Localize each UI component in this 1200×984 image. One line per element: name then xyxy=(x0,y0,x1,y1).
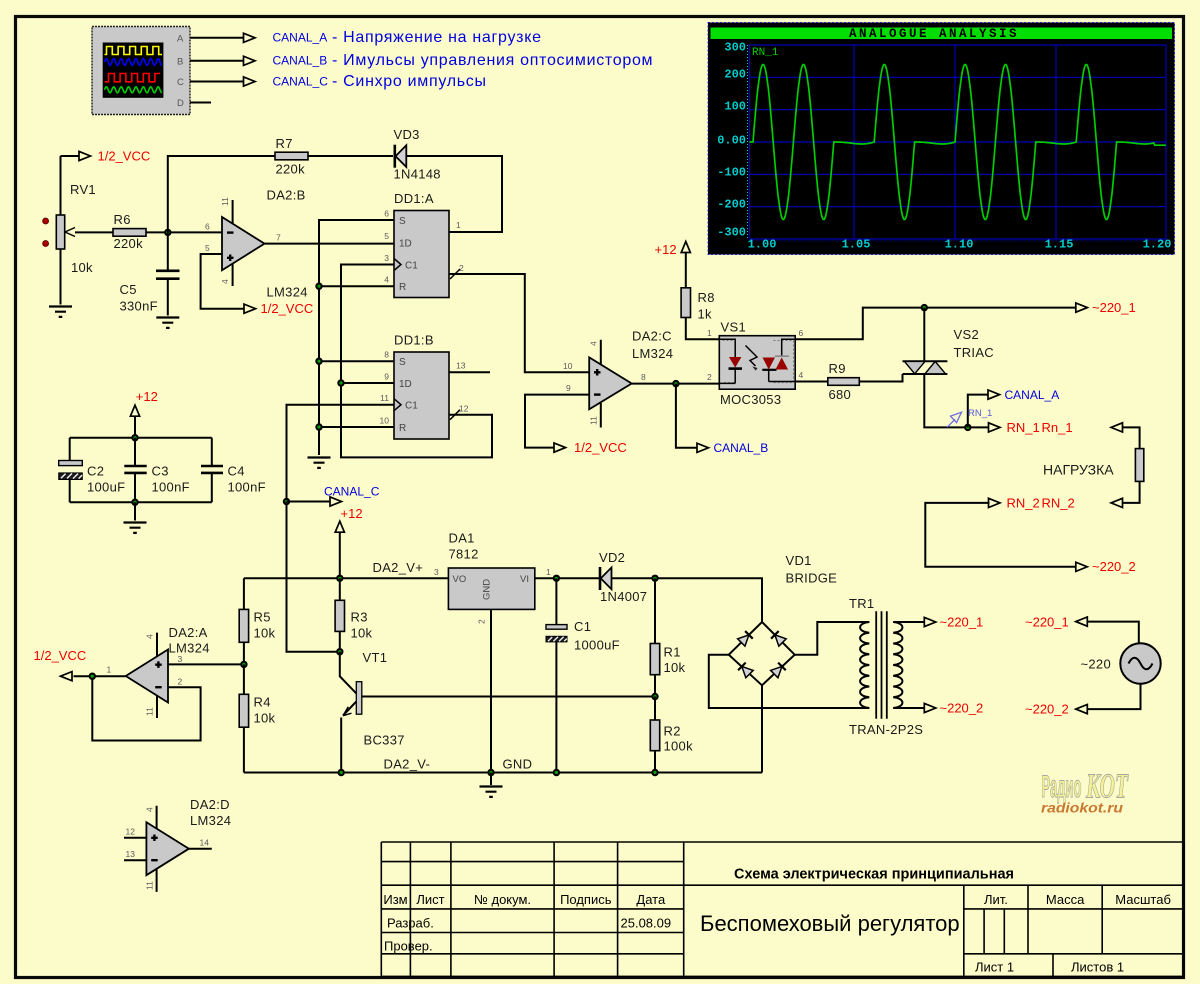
svg-text:Изм: Изм xyxy=(383,892,407,907)
svg-text:CANAL_A: CANAL_A xyxy=(273,31,328,45)
svg-text:220k: 220k xyxy=(276,162,306,177)
op-amp DA2:C xyxy=(563,329,673,410)
node R3 top junction xyxy=(336,575,343,582)
svg-text:220k: 220k xyxy=(114,236,144,251)
svg-text:RN_1: RN_1 xyxy=(968,408,992,419)
svg-text:1: 1 xyxy=(456,220,461,230)
terminal RN_1 xyxy=(989,420,1040,435)
terminal CANAL_C xyxy=(287,485,380,507)
node divider junction xyxy=(240,661,247,668)
wire DD1:A C1 feedback loop from DD1:B pin12 xyxy=(341,265,492,458)
wire RV1 top xyxy=(60,156,62,215)
svg-text:100nF: 100nF xyxy=(152,480,190,495)
wire TR1 secondary top xyxy=(893,621,924,623)
svg-text:1.20: 1.20 xyxy=(1143,238,1172,252)
terminal CANAL_B scope xyxy=(244,56,256,65)
terminal ~220_2 top xyxy=(1076,559,1136,574)
svg-text:1N4148: 1N4148 xyxy=(394,167,441,182)
svg-text:DA2_V+: DA2_V+ xyxy=(373,560,424,575)
op-amp DA2:A xyxy=(107,625,210,703)
wire DA2_V- ground rail xyxy=(244,772,762,774)
svg-text:RN_1: RN_1 xyxy=(752,47,779,59)
svg-text:C2: C2 xyxy=(87,464,104,479)
net label CANAL_A description xyxy=(273,29,542,46)
svg-text:1k: 1k xyxy=(698,307,713,322)
wire source top xyxy=(1087,622,1139,644)
wire TR1 secondary bottom xyxy=(893,707,924,709)
analysis trace RN_1 xyxy=(750,65,1166,220)
op-amp DA2:B power pins xyxy=(220,197,233,286)
svg-text:2: 2 xyxy=(178,677,183,687)
title block grid xyxy=(381,842,1184,976)
svg-text:14: 14 xyxy=(200,838,210,848)
svg-text:R5: R5 xyxy=(254,610,271,625)
svg-text:C1: C1 xyxy=(574,619,591,634)
scope trace blue xyxy=(105,59,162,66)
resistor R2 100k xyxy=(650,697,693,773)
svg-text:100nF: 100nF xyxy=(228,480,266,495)
node DD1:B S junction xyxy=(315,358,322,365)
svg-text:1N4007: 1N4007 xyxy=(600,589,647,604)
svg-text:13: 13 xyxy=(126,849,136,859)
node CANAL_B junction xyxy=(672,380,679,387)
svg-text:R: R xyxy=(399,423,406,434)
wire DA2:B pin5 loop to 1/2_VCC xyxy=(201,254,244,309)
svg-text:DD1:B: DD1:B xyxy=(394,333,434,348)
diode VD2 1N4007 xyxy=(599,550,647,604)
svg-text:11: 11 xyxy=(380,393,389,403)
svg-text:300: 300 xyxy=(724,41,746,55)
node DD1:B R junction xyxy=(315,423,322,430)
svg-text:10k: 10k xyxy=(351,626,373,641)
svg-text:R: R xyxy=(399,282,406,293)
svg-text:~220_1: ~220_1 xyxy=(940,614,984,629)
svg-text:10: 10 xyxy=(563,361,573,371)
analogue analysis window xyxy=(708,23,1175,255)
svg-text:+12: +12 xyxy=(136,389,158,404)
svg-text:1/2_VCC: 1/2_VCC xyxy=(98,149,151,164)
svg-text:10k: 10k xyxy=(254,626,276,641)
svg-text:7: 7 xyxy=(276,233,281,243)
flip-flop DD1:B 4013 xyxy=(380,0,469,439)
resistor R7 xyxy=(275,136,308,177)
wire DA2:D pin13 xyxy=(124,859,146,861)
power +12 at R8 xyxy=(655,242,691,288)
node caps top junction xyxy=(131,434,138,441)
capacitor C3 100nF xyxy=(124,438,190,503)
svg-text:R2: R2 xyxy=(664,724,681,739)
wire VD3 to DD1:A pin1 xyxy=(406,156,502,232)
potentiometer RV1 xyxy=(43,182,96,275)
svg-text:100uF: 100uF xyxy=(87,480,125,495)
node VT1 emitter junction xyxy=(338,769,345,776)
svg-text:VS1: VS1 xyxy=(721,320,746,335)
svg-text:25.08.09: 25.08.09 xyxy=(621,916,672,931)
op-amp DA2:A power pins xyxy=(145,633,157,718)
node DA1 pin2 junction xyxy=(487,769,494,776)
wire caps top rail xyxy=(70,437,212,439)
net label CANAL_C description xyxy=(273,73,487,90)
capacitor C4 100nF xyxy=(201,438,266,503)
wire scope C xyxy=(190,81,244,83)
power +12 at R3 xyxy=(335,506,362,578)
node CANAL_C junction xyxy=(283,498,290,505)
diode VD3 1N4148 xyxy=(394,127,441,182)
capacitor C5 xyxy=(120,271,180,314)
svg-text:4: 4 xyxy=(799,370,804,380)
svg-text:VD3: VD3 xyxy=(394,127,420,142)
svg-text:6: 6 xyxy=(799,328,804,338)
node DD1:B 1D junction xyxy=(337,379,344,386)
svg-text:BRIDGE: BRIDGE xyxy=(786,571,838,586)
svg-text:-300: -300 xyxy=(717,226,746,240)
svg-text:A: A xyxy=(177,34,184,45)
svg-text:R4: R4 xyxy=(254,695,271,710)
svg-text:- Синхро импульсы: - Синхро импульсы xyxy=(332,73,487,90)
node VT1 collector junction xyxy=(336,648,343,655)
svg-text:GND: GND xyxy=(503,757,533,772)
svg-text:S: S xyxy=(399,216,406,227)
scope pin labels xyxy=(177,34,184,110)
svg-text:B: B xyxy=(177,57,183,68)
svg-text:R3: R3 xyxy=(351,610,368,625)
svg-text:VD1: VD1 xyxy=(786,553,812,568)
analysis y-axis tick strip xyxy=(747,45,749,239)
svg-text:2: 2 xyxy=(707,372,712,382)
svg-text:- Имульсы управления оптосимис: - Имульсы управления оптосимистором xyxy=(332,52,653,69)
svg-text:~220_2: ~220_2 xyxy=(1092,559,1136,574)
svg-text:1: 1 xyxy=(707,328,712,338)
svg-text:4: 4 xyxy=(589,341,599,346)
svg-text:-100: -100 xyxy=(717,166,746,180)
wire DA2:A output xyxy=(74,675,126,677)
resistor R4 10k xyxy=(239,664,275,772)
svg-text:VO: VO xyxy=(453,574,467,585)
svg-text:TRAN-2P2S: TRAN-2P2S xyxy=(849,722,923,737)
wire DD1:B C1 pin to CANAL_C net xyxy=(287,405,395,502)
node R6/C5/R7 junction xyxy=(164,229,171,236)
title block column headers xyxy=(383,892,1171,907)
svg-text:~220_1: ~220_1 xyxy=(1025,614,1069,629)
svg-text:RV1: RV1 xyxy=(70,182,96,197)
transistor VT1 BC337 xyxy=(340,650,405,773)
oscilloscope icon body xyxy=(92,27,190,115)
node C1 bottom junction xyxy=(553,769,560,776)
svg-text:1/2_VCC: 1/2_VCC xyxy=(574,440,627,455)
analysis plot grid xyxy=(750,45,1167,241)
svg-text:Лист: Лист xyxy=(416,892,444,907)
svg-text:1.00: 1.00 xyxy=(748,238,777,252)
svg-text:LM324: LM324 xyxy=(267,285,308,300)
wire C5 to ground xyxy=(167,279,169,316)
wire RV1 bottom xyxy=(60,249,62,305)
wire MOC pin6 to ~220_1 rail xyxy=(795,308,1076,340)
bridge VD1 xyxy=(729,553,837,685)
svg-text:2: 2 xyxy=(459,263,464,273)
svg-text:C: C xyxy=(177,77,184,88)
terminal CANAL_B xyxy=(676,384,768,455)
ground DD1 rail xyxy=(308,458,331,468)
wire DA1 pin1 to VD2 xyxy=(535,577,601,579)
wire junction down to VS2 xyxy=(923,308,925,362)
svg-text:ANALOGUE ANALYSIS: ANALOGUE ANALYSIS xyxy=(849,27,1019,41)
svg-text:0.00: 0.00 xyxy=(717,134,746,148)
capacitor C1 1000uF xyxy=(546,578,620,772)
op-amp DA2:D xyxy=(126,797,232,875)
svg-text:Масса: Масса xyxy=(1046,892,1085,907)
wire RN_2 to ~220_2 xyxy=(925,503,1076,567)
svg-text:-200: -200 xyxy=(717,198,746,212)
wire DA2:D pin12 xyxy=(124,837,146,839)
svg-text:4: 4 xyxy=(220,279,230,284)
resistor R3 10k xyxy=(335,578,372,651)
wire source bottom xyxy=(1087,684,1140,709)
triac VS2 xyxy=(903,327,995,374)
wire load to RN_2 right xyxy=(1123,481,1140,503)
svg-text:8: 8 xyxy=(641,372,646,382)
wire R8 to MOC pin1 xyxy=(686,318,720,340)
svg-text:DA1: DA1 xyxy=(449,531,475,546)
svg-text:10k: 10k xyxy=(71,260,93,275)
node R1 top junction xyxy=(651,575,658,582)
svg-text:1D: 1D xyxy=(399,239,412,250)
wire R7 to VD3 xyxy=(308,155,393,157)
terminal RN_2 right xyxy=(1042,495,1123,510)
terminal CANAL_C scope xyxy=(244,77,256,86)
resistor R9 680 xyxy=(828,361,860,402)
wire bridge right to TR1 primary top xyxy=(795,622,870,655)
svg-text:11: 11 xyxy=(144,881,154,890)
analysis y labels xyxy=(717,41,746,240)
terminal ~220_2 source xyxy=(1025,702,1087,717)
wire DD1:A S pin and ground rail xyxy=(319,220,394,455)
svg-text:10k: 10k xyxy=(254,711,276,726)
svg-text:CANAL_A: CANAL_A xyxy=(1005,388,1060,402)
svg-text:8: 8 xyxy=(384,350,389,360)
svg-text:680: 680 xyxy=(829,387,852,402)
svg-text:VD2: VD2 xyxy=(599,550,625,565)
svg-text:- Напряжение на нагрузке: - Напряжение на нагрузке xyxy=(332,29,542,46)
svg-text:VS2: VS2 xyxy=(954,327,979,342)
svg-text:1/2_VCC: 1/2_VCC xyxy=(261,301,314,316)
wire CANAL_C net down to VT1 collector xyxy=(287,502,340,652)
ground caps xyxy=(124,523,147,533)
wire DD1:B pin13 stub xyxy=(449,371,490,373)
svg-text:DA2_V-: DA2_V- xyxy=(384,757,431,772)
node DA2:A output junction xyxy=(89,673,96,680)
wire DA2:D output stub xyxy=(189,848,212,850)
svg-text:LM324: LM324 xyxy=(632,346,673,361)
source ~220 xyxy=(1081,643,1161,683)
svg-text:LM324: LM324 xyxy=(190,813,231,828)
resistor R8 xyxy=(681,288,715,322)
wire DD1:B 1D pin xyxy=(341,382,394,384)
svg-text:5: 5 xyxy=(384,231,389,241)
svg-text:НАГРУЗКА: НАГРУЗКА xyxy=(1043,462,1114,478)
net label CANAL_B description xyxy=(273,52,654,69)
terminal ~220_2 TR1 xyxy=(924,700,983,715)
op-amp DA2:D power pins xyxy=(144,806,156,892)
svg-text:R1: R1 xyxy=(664,645,681,660)
svg-text:CANAL_B: CANAL_B xyxy=(714,441,769,455)
svg-text:11: 11 xyxy=(589,416,599,425)
terminal CANAL_A scope xyxy=(244,33,256,42)
svg-text:Лит.: Лит. xyxy=(984,892,1008,907)
svg-text:radiokot.ru: radiokot.ru xyxy=(1041,800,1123,816)
svg-text:3: 3 xyxy=(434,567,439,577)
terminal ~220_1 TR1 xyxy=(924,614,983,629)
wire DD1:B S pin xyxy=(319,360,394,362)
wire CANAL_A stub xyxy=(968,395,989,428)
node VS2 top junction xyxy=(921,304,928,311)
svg-text:TR1: TR1 xyxy=(849,596,874,611)
svg-text:Масштаб: Масштаб xyxy=(1115,892,1171,907)
svg-text:200: 200 xyxy=(724,68,746,82)
node R1/R2 junction xyxy=(651,693,658,700)
wire VT1 base to divider R1/R2 xyxy=(362,696,655,698)
wire DA2:C pin9 to 1/2_VCC xyxy=(525,395,589,448)
svg-text:RN_1: RN_1 xyxy=(1007,420,1040,435)
watermark Radio KOT xyxy=(1041,767,1129,816)
terminal 1/2_VCC at DA2:C xyxy=(554,440,627,455)
ground C5 xyxy=(156,318,179,328)
svg-text:1000uF: 1000uF xyxy=(574,638,620,653)
svg-text:4: 4 xyxy=(384,275,389,285)
svg-text:9: 9 xyxy=(566,383,571,393)
resistor R5 10k xyxy=(239,578,275,664)
svg-text:RN_2: RN_2 xyxy=(1007,495,1040,510)
wire rail to ground xyxy=(490,773,492,786)
svg-text:R7: R7 xyxy=(276,136,293,151)
power +12 at caps xyxy=(130,389,157,438)
svg-text:100: 100 xyxy=(724,100,746,114)
terminal 1/2_VCC at DA2:A xyxy=(34,648,87,681)
svg-text:VI: VI xyxy=(520,574,529,585)
regulator DA1 7812 xyxy=(434,531,551,625)
svg-text:DA2:D: DA2:D xyxy=(190,797,230,812)
svg-text:Лист 1: Лист 1 xyxy=(975,960,1014,975)
node RN_1 junction xyxy=(964,424,971,431)
svg-text:DD1:A: DD1:A xyxy=(394,191,434,206)
svg-text:CANAL_C: CANAL_C xyxy=(324,485,380,499)
title block rows text xyxy=(384,916,1124,975)
svg-text:10k: 10k xyxy=(664,660,686,675)
svg-text:330nF: 330nF xyxy=(120,299,158,314)
wire DA2:A pin2 feedback loop xyxy=(92,676,200,740)
wire DA2:C output to MOC pin2 xyxy=(632,383,720,385)
svg-text:MOC3053: MOC3053 xyxy=(720,392,781,407)
svg-text:~220: ~220 xyxy=(1081,657,1111,672)
svg-text:RN_2: RN_2 xyxy=(1042,495,1075,510)
svg-text:C3: C3 xyxy=(152,464,169,479)
svg-text:Разраб.: Разраб. xyxy=(387,916,434,931)
svg-text:13: 13 xyxy=(456,360,466,370)
wire VS2 down to RN_1 node xyxy=(924,374,989,427)
terminal ~220_1 source xyxy=(1025,614,1087,629)
svg-text:DA2:C: DA2:C xyxy=(632,329,672,344)
wire RV1 wiper to R6 xyxy=(75,231,113,233)
svg-text:7812: 7812 xyxy=(449,547,479,562)
svg-text:R8: R8 xyxy=(698,290,715,305)
terminal 1/2_VCC at DA2:B xyxy=(244,301,313,316)
svg-text:Схема электрическая принципиал: Схема электрическая принципиальная xyxy=(734,867,1014,883)
svg-text:Провер.: Провер. xyxy=(384,939,433,954)
svg-text:S: S xyxy=(399,357,406,368)
resistor R1 10k xyxy=(650,578,685,696)
svg-text:VT1: VT1 xyxy=(363,650,388,665)
svg-text:~220_1: ~220_1 xyxy=(1092,300,1136,315)
svg-text:D: D xyxy=(177,98,184,109)
svg-text:1.05: 1.05 xyxy=(842,238,871,252)
svg-text:3: 3 xyxy=(178,654,183,664)
wire scope A xyxy=(190,37,244,39)
svg-text:C1: C1 xyxy=(405,261,418,272)
svg-text:C1: C1 xyxy=(405,401,418,412)
scope trace green xyxy=(105,87,162,93)
svg-text:Листов 1: Листов 1 xyxy=(1071,960,1124,975)
svg-text:R9: R9 xyxy=(829,361,846,376)
svg-text:R6: R6 xyxy=(114,212,131,227)
wire junction down to C5 xyxy=(167,232,169,270)
svg-text:~220_2: ~220_2 xyxy=(1025,702,1069,717)
terminal Rn_1 right xyxy=(1042,420,1123,435)
svg-text:100k: 100k xyxy=(664,739,694,754)
wire feedback vertical to R7 line xyxy=(168,156,275,232)
svg-text:TRIAC: TRIAC xyxy=(954,345,995,360)
svg-text:Дата: Дата xyxy=(636,892,666,907)
ground RV1 xyxy=(49,307,72,317)
svg-text:12: 12 xyxy=(459,404,469,414)
svg-text:9: 9 xyxy=(384,372,389,382)
svg-text:1.10: 1.10 xyxy=(945,238,974,252)
svg-text:1: 1 xyxy=(107,665,112,675)
terminal CANAL_A xyxy=(988,388,1059,402)
resistor R6 xyxy=(113,212,146,251)
terminal RN_2 left xyxy=(989,495,1040,510)
svg-text:Rn_1: Rn_1 xyxy=(1042,420,1073,435)
wire DA2:B output pin7 to DD1:A 1D xyxy=(265,243,395,245)
op-amp DA2:B xyxy=(205,188,308,300)
node R2 bottom junction xyxy=(651,769,658,776)
wire Rn_1 to load xyxy=(1123,427,1140,448)
wire DA1 pin2 to ground rail xyxy=(490,609,492,772)
svg-text:10: 10 xyxy=(380,416,390,426)
svg-text:6: 6 xyxy=(384,209,389,219)
svg-text:11: 11 xyxy=(145,707,155,716)
svg-text:+12: +12 xyxy=(655,242,677,257)
wire MOC pin4 to R9 xyxy=(795,381,828,383)
svg-text:C4: C4 xyxy=(228,464,245,479)
wire DD1:A pin2 to DA2:C pin10 xyxy=(449,274,589,372)
svg-text:Беспомеховый регулятор: Беспомеховый регулятор xyxy=(700,911,960,936)
svg-text:11: 11 xyxy=(220,197,230,206)
probe RN_1 xyxy=(947,408,992,427)
wire bridge left to TR1 primary bottom xyxy=(709,655,870,708)
flip-flop DD1:A 4013 xyxy=(384,0,464,298)
node C1 top junction xyxy=(553,575,560,582)
svg-text:DA2:A: DA2:A xyxy=(169,625,208,640)
svg-text:GND: GND xyxy=(482,579,493,600)
svg-text:1: 1 xyxy=(546,567,551,577)
svg-text:+12: +12 xyxy=(341,506,363,521)
op-amp DA2:C power pins xyxy=(589,340,601,428)
svg-text:~220_2: ~220_2 xyxy=(940,700,984,715)
svg-text:DA2:B: DA2:B xyxy=(267,188,306,203)
optocoupler VS1 MOC3053 xyxy=(707,320,804,408)
capacitor C2 100uF xyxy=(59,438,126,503)
wire R9 to VS2 gate xyxy=(859,374,902,382)
scope trace yellow xyxy=(105,47,163,55)
